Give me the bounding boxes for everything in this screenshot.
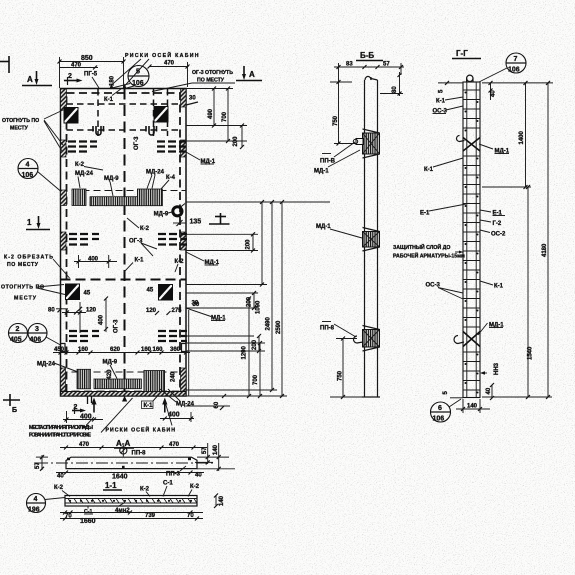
G-G lifting loop top [467,75,473,82]
dim 60 bottom-right [214,394,226,410]
dashed construction line lower [61,371,187,373]
section marker 2 top [64,73,83,85]
balloon 3/406 [28,324,61,346]
label MD-1 B-B2 [316,224,362,238]
label mesta opiraniya [29,417,94,439]
dim 470 right [148,61,190,88]
label MD-9 upper [104,176,119,196]
dim 140 G-G bottom [456,399,490,413]
label K-2 upper [75,162,103,170]
bottom edge band [61,392,187,397]
B-B insert block 3 [354,326,380,352]
dim 120 bottom-right [146,308,159,315]
label K-1 lower [142,393,161,409]
label K-2 mid-right [175,259,185,272]
lifting loop MD-9 circle [173,207,182,216]
edge offset line bottom-right [188,310,190,396]
balloon 4/196 [27,494,66,514]
label 135 [173,219,201,227]
label PP-8 B-B3 [320,322,356,338]
anchor plate bottom-left [66,284,80,300]
dim 700 chain low [253,341,262,398]
dim 57 right A-A [195,443,213,464]
dim 1400 G-G [482,81,553,189]
label S-1 s [163,481,173,497]
anchor plate top-right [154,107,168,123]
dim 850 [58,55,126,88]
dash group upper-left [68,142,97,152]
dashed construction line mid-upper [61,190,187,192]
label E-1 G-G left [420,204,466,217]
dim 400 below-left [63,411,103,423]
label K-1 G-G mid [424,158,463,173]
dim 140 right A-A [213,443,221,471]
label 30 right lower [192,301,199,307]
label K-1 G-G lower [480,281,504,290]
label MD-1 B-B1 [314,150,360,175]
dim 40 G-G top-right [489,81,497,100]
hook top-right [146,126,157,135]
balloon 6/106 [431,399,462,423]
label MD-24 left-outer [37,362,78,373]
dim 1090 chain [256,200,265,314]
B-B insert block 1 [353,129,379,158]
B-B column strip [362,76,380,397]
right edge hatch strip upper [181,140,187,157]
label K-2 mid [127,218,150,232]
G-G ladder rungs [463,90,480,390]
label OS-3 G-G lower [426,283,464,300]
left edge hatch strip upper [61,140,67,157]
left edge hatch strip at bar [61,190,67,206]
label MD-1 G-G lower [478,323,504,336]
dim 120 bottom-left [62,308,97,315]
label 4mn2 [115,503,130,514]
label PP-3 [166,466,186,478]
label PP-V B-B [320,142,355,165]
extension lines right [186,89,330,407]
label MD-1 right mid [186,252,220,266]
dim 700 top [222,87,230,144]
dim 57 left A-A [35,455,48,471]
dim 140 right 1-1 [214,494,225,509]
G-G column strip [463,82,480,398]
title A-A [114,439,134,448]
label K-1 mid [124,258,144,273]
dim 2490 chain [266,200,275,392]
dim 750 B-B top [330,80,356,146]
dim 470 left [60,63,99,70]
dash group low-left [69,331,99,341]
leader riski top 1 [112,59,142,85]
balloon 7/106 [479,53,526,82]
dim 240 vertical lower [171,371,177,382]
label K-1 top [104,89,122,104]
label MD-9 circle [154,212,172,218]
label OG-3 mid [129,239,157,257]
left edge notch [61,344,66,352]
title 1-1 [103,481,122,490]
support zone marks bottom [88,396,92,404]
dim 490 [208,87,216,128]
section marker 2 bottom [72,404,86,414]
balloon 4/106 [18,159,61,192]
label K-2 s3 [188,484,200,497]
title B-B [356,51,383,61]
dim 5 G-G top-left [438,81,463,93]
section marker A right [236,66,262,81]
label riski osey kabin bottom [101,398,176,434]
dim 1660 [60,517,203,526]
mesh bar MD-9 lower-center [94,379,141,389]
dim 200 chain mid2 [247,291,257,310]
right edge hatch strip mid [181,232,187,250]
left bottom edge hatch strip [61,368,66,391]
mesh bar MD-9 center [90,197,137,206]
label OS-2 G-G right [480,230,506,238]
dim 40 G-G bottom [486,383,494,400]
A-A bar end marks [67,458,191,469]
section marker B left-bottom [3,394,20,414]
dim 200 chain low [252,334,261,353]
label K-2 s1 [54,485,70,497]
dim 5 G-G bottom-left [443,391,463,398]
right bottom edge hatch strip [181,368,187,391]
axis symbol PP-8 on A-A [120,445,146,457]
label otognut po mestu left lower [1,285,65,302]
dim 80 B-B [380,72,403,96]
anchor plate bottom-right [159,285,173,301]
dash group low-right [158,331,187,341]
A-A bar [36,457,235,469]
dim 750 B-B bottom [330,337,362,400]
G-G X cross upper [457,136,481,152]
balloon 2/405 [9,324,28,344]
right edge notch [182,344,187,352]
section marker A left [22,71,52,86]
dash group mid-right [158,234,187,245]
dim 1540 G-G [526,185,534,399]
label G-2 G-G right [480,220,502,227]
balloon 5/106 [112,66,149,89]
dim line A-A top 470/470 [60,442,207,450]
dims below 1-1 [60,511,203,520]
panel outline [61,89,187,397]
riska mark left [110,84,114,89]
label K-2 s2 [140,487,150,497]
dim 1640 A-A [56,471,204,481]
right top corner hatch strip [181,89,187,107]
riska mark right [123,84,127,89]
corner marker top-left edge [0,56,9,73]
dash group mid-left [69,234,99,245]
label C-1 below bar [84,506,93,515]
dim 275 bottom-right [167,308,183,315]
label MD-24 upper-right [146,170,165,189]
label MD-1 G-G upper [479,144,510,155]
label OG-3 otognut po mestu top-right [152,70,235,92]
support arrow right [162,398,167,413]
label E-1 G-G right [480,210,505,217]
dim 200 top [233,124,244,150]
dim 4180 G-G [542,81,550,399]
label PG-5 top [84,72,99,89]
label MD-24 lower-right [160,389,195,408]
hook top-left [93,126,104,135]
G-G rebar dots [465,92,479,394]
bottom extension G-G [482,396,552,398]
section marker 1 left [26,216,50,230]
label K-2 obrezat po mestu [4,255,70,279]
label MD-9 lower [103,360,118,379]
B-B insert block 2 [363,228,380,252]
1-1 bar [65,496,197,507]
dim 400 below-right [160,412,194,423]
marker N right [209,213,230,224]
dim 400 vertical lower-left [78,297,108,334]
dim 420 vertical lower [107,369,113,380]
anchor plate top-left [64,108,78,124]
label OG-3 vertical upper [134,136,140,150]
top-left corner hatch strip [61,89,67,110]
central axis dashed line [124,89,126,397]
inner dashed contour [67,93,181,392]
dim 1290 chain [242,297,252,399]
mesh bar MD-24 lower-right [144,371,165,392]
label NNZ G-G [480,362,500,375]
support arrow left [91,398,96,413]
dim 200 chain mid1 [246,232,256,252]
label OS-3 G-G top [433,106,464,115]
dim 2590 chain [276,200,284,398]
mesh bar MD-24 upper-mid-right [137,189,162,206]
label K-1 G-G top [436,97,463,105]
dim line 83/57 [334,62,404,83]
title G-G [452,49,481,59]
leader riski top 2 [125,59,150,86]
mesh bar MD-24 lower-left [77,369,91,389]
central riska bottom edge [122,396,127,402]
dash group upper-right [157,142,186,152]
inner dim row 450/160/620/160/160/360 [53,347,190,355]
dim 400 mid [74,255,117,268]
label MD-1 right lower [186,308,226,322]
text zashitny sloy [393,243,465,260]
G-G X cross lower [454,332,480,347]
thick dashed line mid panel [61,279,187,281]
dashed grid top area [67,89,181,136]
mesh bar MD-24 upper-left [72,189,86,206]
label MD-24 upper-left [75,171,94,188]
label otognut po mestu top-left [2,110,63,151]
label 80 left [48,308,68,314]
dim 30 top-right corner [186,96,198,106]
label K-4 upper-right [161,175,176,189]
label MD-1 right upper [186,152,216,165]
left edge hatch strip mid [61,232,67,250]
